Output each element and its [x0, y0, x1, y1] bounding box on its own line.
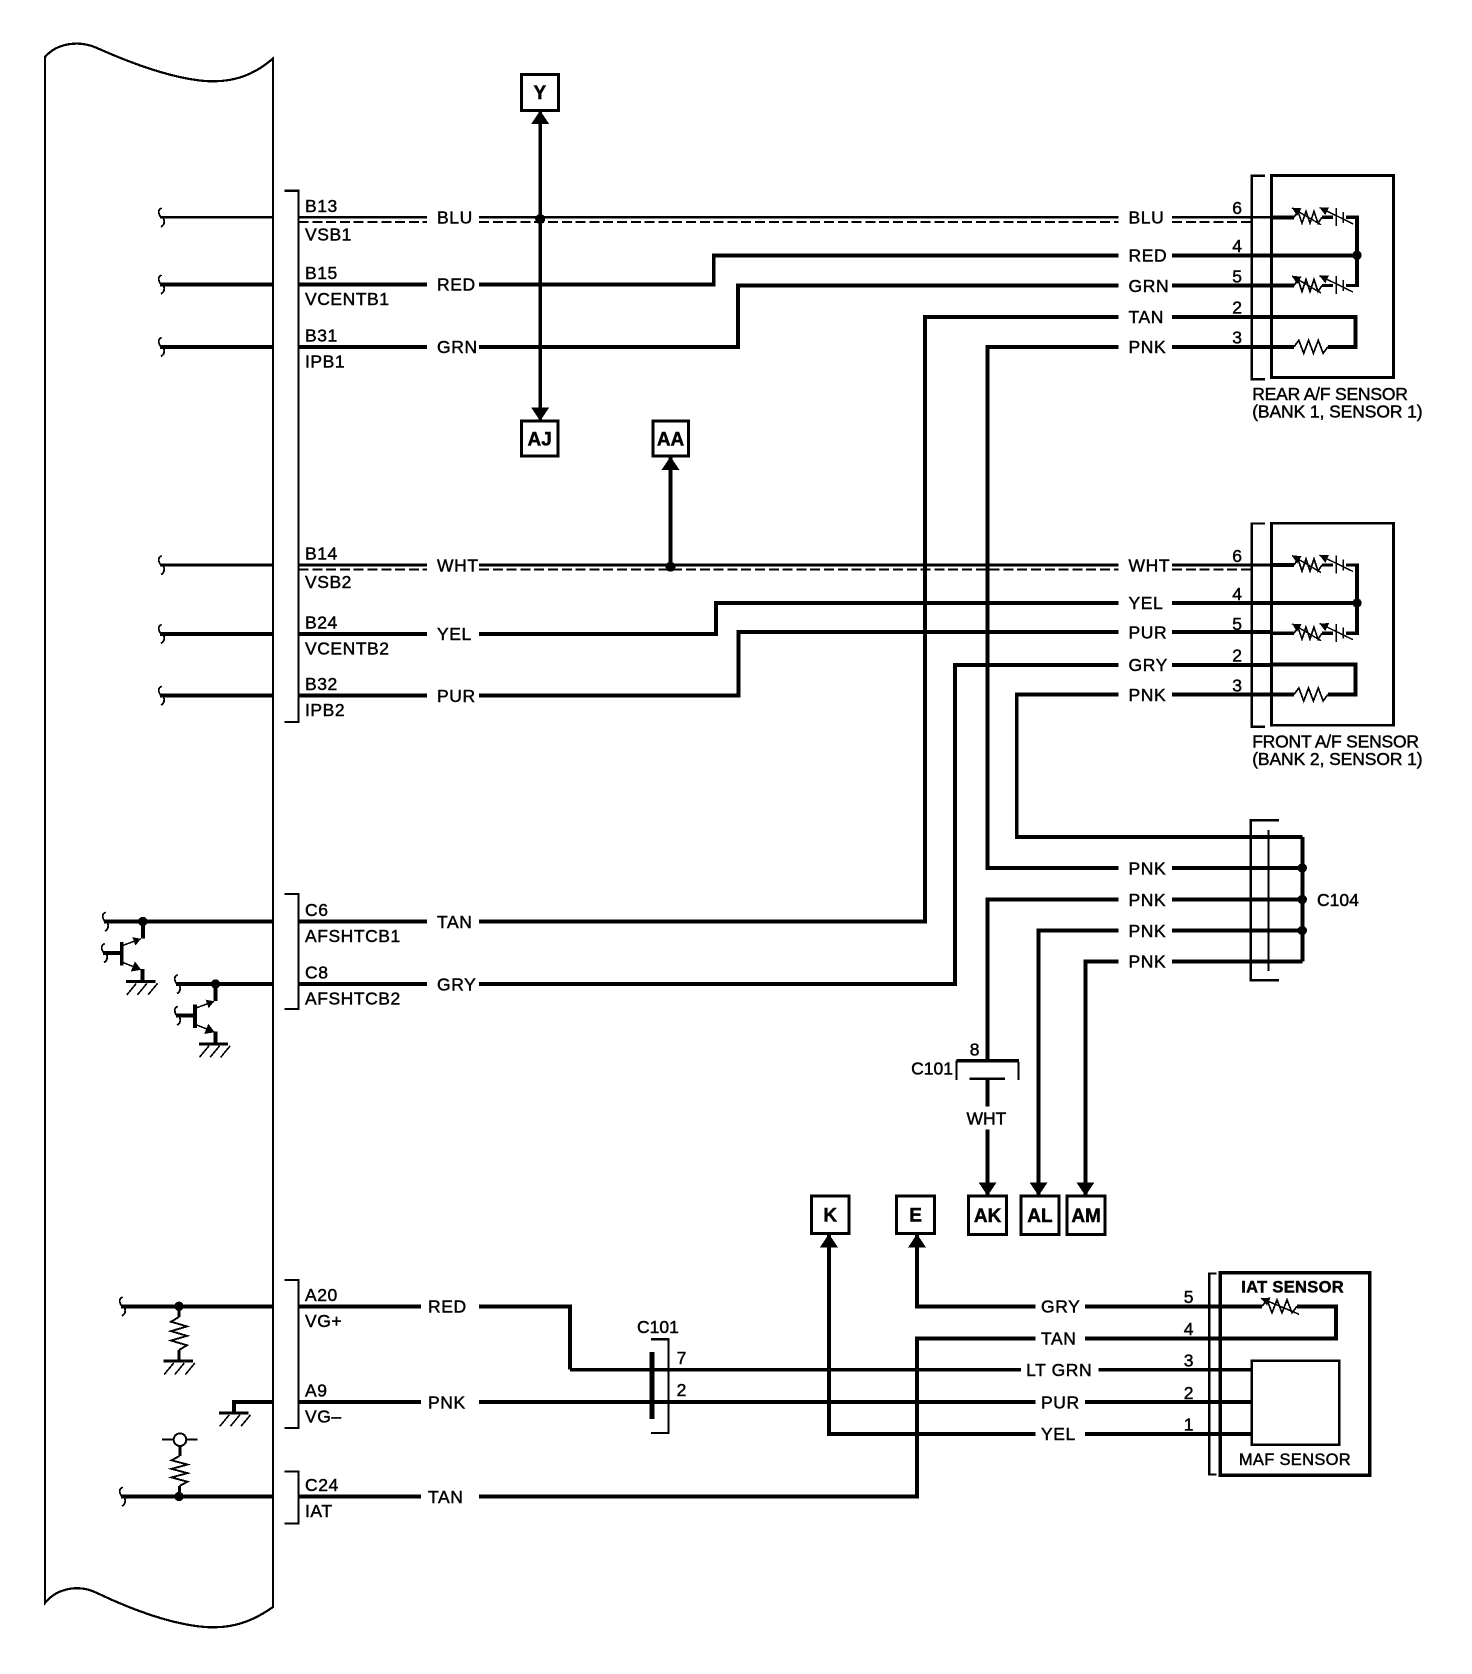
pin stub A9 (to internal ground) [234, 1402, 273, 1413]
svg-text:B15: B15 [305, 263, 338, 283]
svg-text:C104: C104 [1317, 890, 1359, 910]
wire PNK front A/F sensor pin 3 to C104 [1017, 695, 1303, 838]
wire colour label TAN (C24) [428, 1487, 464, 1507]
svg-text:AL: AL [1027, 1206, 1053, 1227]
wire colour label PNK (C104 row 3) [1129, 890, 1167, 910]
wire B14 VSB2 WHT (solid run to front sensor pin 6) [299, 564, 1272, 567]
wire PUR C101 pin 2 to MAF pin 2 [1085, 1400, 1220, 1404]
svg-text:3: 3 [1184, 1351, 1194, 1371]
pin label C24/IAT [305, 1475, 339, 1521]
wire A20 VG+ RED to C101 pin 7 [299, 1306, 571, 1369]
wire colour label WHT (to AK) [967, 1109, 1007, 1129]
resistor (A20 VG+ internal pull-down) [171, 1306, 187, 1361]
svg-text:MAF SENSOR: MAF SENSOR [1239, 1451, 1351, 1469]
svg-text:PNK: PNK [1129, 685, 1167, 705]
svg-text:C8: C8 [305, 963, 328, 983]
svg-text:6: 6 [1232, 198, 1242, 218]
svg-text:YEL: YEL [437, 624, 472, 644]
svg-text:GRY: GRY [1129, 655, 1168, 675]
connector label C101 (pins 7/2) [637, 1317, 679, 1337]
svg-text:GRY: GRY [437, 974, 476, 994]
svg-text:TAN: TAN [428, 1487, 464, 1507]
junction node on BLU at Y/AJ tap [535, 214, 545, 224]
pin stub B14 [159, 556, 273, 575]
wire colour label PUR (at sensor) [1129, 622, 1168, 642]
svg-text:VCENTB1: VCENTB1 [305, 289, 390, 309]
wire colour label TAN (at rear sensor) [1129, 307, 1165, 327]
svg-text:WHT: WHT [437, 555, 479, 575]
pin stub A20 with pull-down junction [120, 1297, 273, 1316]
svg-text:PUR: PUR [437, 686, 476, 706]
svg-text:YEL: YEL [1041, 1424, 1076, 1444]
svg-text:4: 4 [1232, 236, 1242, 256]
svg-text:IAT SENSOR: IAT SENSOR [1241, 1278, 1344, 1296]
junction node on WHT at AA tap [666, 562, 676, 572]
svg-text:C24: C24 [305, 1475, 339, 1495]
pin label B13/VSB1 [305, 196, 352, 245]
rear sensor pin numbers 6 4 5 2 3 [1232, 198, 1242, 348]
svg-text:RED: RED [1129, 246, 1168, 266]
wire C24 IAT TAN to MAF pin 4 [299, 1338, 1221, 1496]
svg-text:PNK: PNK [1129, 858, 1167, 878]
connector bracket group B13..B32 [285, 191, 299, 722]
svg-text:6: 6 [1232, 546, 1242, 566]
svg-text:TAN: TAN [1041, 1329, 1077, 1349]
pin stub B31 [159, 338, 273, 357]
svg-text:TAN: TAN [1129, 307, 1165, 327]
wire A9 VG- PNK to C101 pin 2 [299, 1400, 1036, 1404]
pin number 2 at C101 [677, 1380, 687, 1400]
connector bracket group C24 [285, 1472, 299, 1524]
svg-text:LT GRN: LT GRN [1026, 1360, 1092, 1380]
rear sensor cell: variable resistor + variable cell, pin 5 [1272, 275, 1359, 294]
wire colour label BLU (left) [437, 208, 473, 228]
label FRONT A/F SENSOR [1252, 732, 1422, 770]
wire PNK C104 row 5 down to AM [1076, 961, 1302, 1196]
svg-text:WHT: WHT [967, 1109, 1007, 1129]
svg-text:C101: C101 [911, 1059, 953, 1079]
svg-text:PNK: PNK [1129, 890, 1167, 910]
pin label B15/VCENTB1 [305, 263, 390, 309]
wire colour label PNK (C104 row 4) [1129, 921, 1167, 941]
IAT thermistor loop pins 5-4 [1220, 1298, 1336, 1339]
connector label C101 (vertical one) [911, 1059, 953, 1079]
pin label B32/IPB2 [305, 674, 345, 720]
front sensor cell: variable resistor + variable cell, pin 5 [1272, 623, 1359, 642]
front sensor pin numbers 6 4 5 2 3 [1232, 546, 1242, 696]
connector code box AA [653, 421, 689, 456]
wire B13 VSB1 BLU (solid run to rear sensor pin 6) [299, 216, 1272, 219]
wire colour label RED (left) [437, 275, 476, 295]
connector label C104 [1317, 890, 1359, 910]
wire C8 AFSHTCB2 GRY [299, 665, 1272, 984]
svg-text:2: 2 [1232, 645, 1242, 665]
wire colour label PNK (front sensor pin 3) [1129, 685, 1167, 705]
wire PNK C104 row 3 down to C101 pin 8 (becomes WHT to AK) [988, 900, 1303, 1060]
svg-text:VSB2: VSB2 [305, 572, 352, 592]
wire B15 VCENTB1 RED [299, 255, 1272, 284]
wire PNK rear A/F sensor pin 3 to C104 [988, 347, 1303, 868]
wire WHT C101 pin 8 to AK [979, 1080, 997, 1196]
svg-text:C6: C6 [305, 900, 328, 920]
wire colour label PUR (to MAF) [1041, 1392, 1080, 1412]
front sensor cell: variable resistor + variable cell, pin 6 [1272, 555, 1359, 574]
internal voltage source node (circle) for IAT pull-up [162, 1433, 198, 1446]
svg-text:Y: Y [534, 83, 547, 104]
wire colour label RED (A20) [428, 1297, 467, 1317]
label REAR A/F SENSOR [1252, 384, 1422, 422]
pin label A9/VG- [305, 1381, 342, 1427]
svg-text:3: 3 [1232, 328, 1242, 348]
svg-text:C101: C101 [637, 1317, 679, 1337]
wire B14 VSB2 dashed companion line [299, 569, 1252, 571]
ground symbol at Q1 emitter [126, 981, 157, 995]
svg-text:PNK: PNK [1129, 952, 1167, 972]
svg-text:2: 2 [1184, 1383, 1194, 1403]
connector bracket group C6/C8 [285, 894, 299, 1009]
svg-text:AJ: AJ [528, 429, 552, 450]
wire colour label LT GRN [1026, 1360, 1092, 1380]
pin stub B13 [159, 208, 273, 227]
wire B32 IPB2 PUR [299, 632, 1272, 696]
wire colour label GRY (at front sensor) [1129, 655, 1168, 675]
MAF sensor inner block [1220, 1361, 1339, 1445]
svg-text:AM: AM [1071, 1206, 1101, 1227]
junction dots on C104 common [1298, 863, 1307, 935]
svg-text:WHT: WHT [1129, 555, 1171, 575]
wire C6 AFSHTCB1 TAN [299, 317, 1272, 922]
svg-text:A20: A20 [305, 1285, 338, 1305]
wire LT GRN C101 pin 7 to MAF pin 3 [570, 1368, 1220, 1372]
svg-text:VG+: VG+ [305, 1311, 342, 1331]
svg-text:IPB1: IPB1 [305, 351, 345, 371]
label MAF SENSOR [1239, 1451, 1351, 1469]
interconnect arrow line to codes Y and AJ [531, 110, 549, 421]
svg-text:K: K [823, 1206, 837, 1227]
transistor Q2 (A/F heater control driver, C8) [175, 984, 216, 1044]
svg-text:E: E [909, 1206, 922, 1227]
rear A/F sensor case [1272, 176, 1394, 378]
ground symbol at Q2 emitter [199, 1044, 230, 1058]
connector code box AJ [521, 421, 558, 456]
svg-text:BLU: BLU [1129, 208, 1165, 228]
resistor (C24 IAT internal pull-up) [172, 1446, 188, 1497]
wire colour label YEL (left) [437, 624, 472, 644]
rear sensor common rail with junction to pin 4 [1272, 217, 1362, 285]
wire GRY from code E to MAF pin 5 [908, 1234, 1220, 1307]
wire colour label RED (at sensor) [1129, 246, 1168, 266]
wire colour label TAN (to MAF) [1041, 1329, 1077, 1349]
label IAT SENSOR [1241, 1278, 1344, 1296]
svg-text:VCENTB2: VCENTB2 [305, 638, 390, 658]
front A/F sensor case [1272, 523, 1394, 725]
ground symbol at A9 VG- [219, 1413, 250, 1427]
front sensor common rail with junction to pin 4 [1272, 565, 1362, 633]
rear A/F sensor connector bracket and case [1252, 176, 1265, 379]
wire YEL from code K to MAF pin 1 [820, 1234, 1221, 1434]
svg-text:B13: B13 [305, 196, 338, 216]
pin stub C24 with pull-up junction [120, 1487, 273, 1506]
wire B31 IPB1 GRN [299, 286, 1272, 347]
connector code box K [812, 1196, 849, 1233]
ground symbol below A20 resistor [164, 1361, 195, 1375]
pin label A20/VG+ [305, 1285, 342, 1331]
pin stub C6 with driver transistor collector junction [103, 912, 273, 931]
svg-text:PUR: PUR [1041, 1392, 1080, 1412]
svg-text:2: 2 [677, 1380, 687, 1400]
svg-text:(BANK 2, SENSOR 1): (BANK 2, SENSOR 1) [1252, 749, 1422, 769]
connector code box AL [1021, 1196, 1059, 1234]
svg-text:3: 3 [1232, 675, 1242, 695]
svg-text:YEL: YEL [1129, 593, 1164, 613]
svg-text:PNK: PNK [428, 1392, 466, 1412]
svg-text:AFSHTCB1: AFSHTCB1 [305, 926, 401, 946]
connector bracket group A20/A9 [285, 1280, 299, 1428]
svg-text:BLU: BLU [437, 208, 473, 228]
svg-text:GRY: GRY [1041, 1297, 1080, 1317]
pin stub B32 [159, 686, 273, 705]
svg-text:IAT: IAT [305, 1501, 333, 1521]
wire colour label GRY (to MAF) [1041, 1297, 1080, 1317]
IAT/MAF sensor connector bracket [1209, 1274, 1216, 1475]
svg-text:B31: B31 [305, 326, 338, 346]
IAT/MAF sensor case [1220, 1273, 1369, 1476]
svg-text:B32: B32 [305, 674, 338, 694]
svg-text:8: 8 [970, 1040, 980, 1060]
wire PNK C104 row 4 down to AL [1030, 931, 1303, 1197]
svg-text:AFSHTCB2: AFSHTCB2 [305, 989, 401, 1009]
svg-text:1: 1 [1184, 1415, 1194, 1435]
wire colour label BLU (at sensor) [1129, 208, 1165, 228]
svg-text:PNK: PNK [1129, 921, 1167, 941]
wire colour label YEL (at sensor) [1129, 593, 1164, 613]
svg-text:PUR: PUR [1129, 622, 1168, 642]
in-line connector C101 (pins 7/2) [650, 1339, 669, 1433]
in-line connector C104 [1251, 820, 1302, 980]
svg-text:GRN: GRN [437, 337, 478, 357]
pin number 8 at C101 [970, 1040, 980, 1060]
wire colour label TAN (left, C6) [437, 912, 473, 932]
transistor Q1 (A/F heater control driver, C6) [102, 922, 143, 982]
svg-text:AA: AA [657, 429, 685, 450]
pin label B31/IPB1 [305, 326, 345, 372]
svg-text:4: 4 [1232, 584, 1242, 604]
MAF pin numbers 5 4 3 2 1 [1184, 1287, 1194, 1435]
pin stub C8 with driver transistor collector junction [175, 975, 273, 994]
wire colour label PNK (A9) [428, 1392, 466, 1412]
wire colour label WHT (left) [437, 555, 479, 575]
wire colour label PNK (rear sensor pin 3) [1129, 337, 1167, 357]
front A/F sensor connector bracket [1252, 524, 1265, 727]
pin label B14/VSB2 [305, 544, 352, 593]
svg-text:5: 5 [1232, 266, 1242, 286]
wire B24 VCENTB2 YEL [299, 603, 1272, 634]
svg-text:TAN: TAN [437, 912, 473, 932]
wire colour label GRN (at sensor) [1129, 276, 1170, 296]
svg-text:AK: AK [974, 1206, 1002, 1227]
connector code box E [897, 1196, 935, 1233]
svg-text:B24: B24 [305, 613, 338, 633]
interconnect arrow line to code AA [662, 456, 680, 567]
pin label C6/AFSHTCB1 [305, 900, 401, 946]
svg-text:VG–: VG– [305, 1407, 342, 1427]
connector code box Y [521, 74, 558, 110]
svg-text:PNK: PNK [1129, 337, 1167, 357]
pin stub B24 [159, 625, 273, 644]
pin label C8/AFSHTCB2 [305, 963, 401, 1009]
front sensor heater resistor pin 3 [1272, 688, 1358, 701]
svg-text:RED: RED [437, 275, 476, 295]
svg-text:4: 4 [1184, 1319, 1194, 1339]
pin label B24/VCENTB2 [305, 613, 390, 659]
rear sensor cell: variable resistor + variable cell, pin 6 [1272, 207, 1359, 226]
wire colour label WHT (at sensor) [1129, 555, 1171, 575]
wire B13 VSB1 dashed companion line [299, 221, 1252, 223]
wire colour label PUR (left) [437, 686, 476, 706]
wire colour label PNK (C104 row 5) [1129, 952, 1167, 972]
pin number 7 at C101 [677, 1348, 687, 1368]
svg-text:5: 5 [1232, 614, 1242, 634]
svg-text:IPB2: IPB2 [305, 700, 345, 720]
front sensor heater loop pin 2 [1272, 665, 1356, 695]
svg-text:2: 2 [1232, 298, 1242, 318]
wire colour label GRN (left) [437, 337, 478, 357]
svg-text:A9: A9 [305, 1381, 328, 1401]
svg-text:VSB1: VSB1 [305, 225, 352, 245]
wire colour label YEL (to MAF) [1041, 1424, 1076, 1444]
wire colour label PNK (C104 row 2) [1129, 858, 1167, 878]
svg-text:GRN: GRN [1129, 276, 1170, 296]
wire colour label GRY (left, C8) [437, 974, 476, 994]
svg-text:RED: RED [428, 1297, 467, 1317]
svg-text:5: 5 [1184, 1287, 1194, 1307]
connector code box AM [1067, 1196, 1105, 1234]
svg-text:7: 7 [677, 1348, 687, 1368]
connector code box AK [969, 1196, 1007, 1234]
svg-text:(BANK 1, SENSOR 1): (BANK 1, SENSOR 1) [1252, 402, 1422, 422]
ECM/PCM module outline (torn edges) [45, 44, 273, 1628]
svg-text:B14: B14 [305, 544, 338, 564]
in-line connector C101 (vertical, pin 8) [957, 1061, 1019, 1080]
rear sensor heater resistor pin 3 [1272, 340, 1358, 353]
pin stub B15 [159, 275, 273, 294]
rear sensor heater loop pin 2 [1272, 317, 1356, 347]
